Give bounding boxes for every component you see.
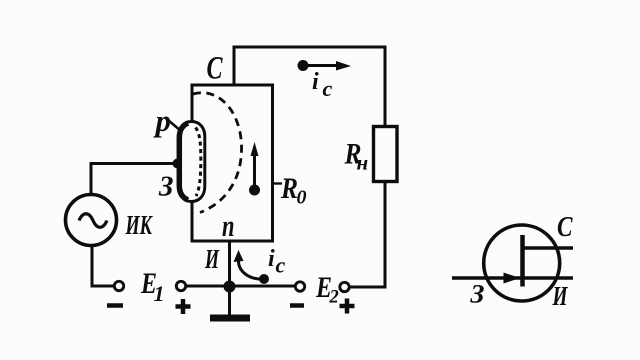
depletion boundary dashed curve: [193, 93, 242, 213]
E1 terminal plus circle: [176, 281, 185, 290]
wire AC source to gate: [91, 164, 174, 196]
svg-text:З: З: [158, 171, 174, 203]
svg-text:1: 1: [154, 281, 165, 306]
E2 terminal minus circle: [295, 282, 304, 291]
svg-text:i: i: [312, 69, 319, 95]
ic curved arrow bottom: [234, 250, 270, 284]
wire source lead down: [228, 241, 231, 286]
E2 minus sign: [290, 303, 304, 308]
jfet channel bar: [520, 235, 525, 287]
jfet drain lead: [523, 246, 574, 249]
svg-text:n: n: [222, 208, 235, 243]
jfet gate-source line: [452, 276, 573, 279]
svg-text:c: c: [276, 253, 286, 278]
svg-text:R: R: [280, 172, 298, 205]
svg-text:И: И: [204, 244, 219, 274]
transistor structure box: [192, 85, 273, 241]
p pointer line: [168, 120, 181, 131]
svg-text:C: C: [207, 51, 224, 87]
svg-text:i: i: [268, 246, 275, 272]
wire junction to E2: [229, 285, 295, 288]
p-region capsule: [179, 122, 205, 202]
svg-text:З: З: [469, 280, 484, 309]
wire right vertical lower: [349, 182, 385, 288]
E2 terminal plus circle: [340, 282, 349, 291]
E1 minus sign: [107, 303, 123, 308]
svg-text:0: 0: [297, 187, 307, 209]
node junction dot: [224, 281, 236, 293]
E2 plus sign: [340, 299, 355, 314]
E1 terminal minus circle: [114, 281, 123, 290]
svg-text:И: И: [552, 281, 568, 311]
wire bottom left run: [186, 285, 224, 288]
svg-text:н: н: [357, 151, 369, 175]
svg-text:ИК: ИК: [125, 210, 153, 240]
wire drain lead C: [233, 47, 236, 85]
R0 tick: [273, 182, 283, 184]
E1 plus sign: [176, 299, 191, 314]
resistor RH body: [374, 127, 398, 182]
wire E1 to AC source: [92, 246, 115, 286]
svg-text:C: C: [557, 211, 573, 243]
svg-text:c: c: [323, 76, 333, 101]
p-n junction dotted line: [196, 128, 201, 197]
wire top horizontal: [234, 46, 385, 49]
ic arrow top: [298, 60, 352, 71]
ac source IK: [66, 195, 117, 246]
ground: [210, 286, 250, 318]
p-region thick left arc: [179, 123, 188, 200]
R0 channel arrow: [249, 142, 260, 196]
gate terminal dot: [173, 159, 183, 169]
jfet gate arrowhead: [504, 273, 521, 284]
jfet symbol circle: [484, 225, 560, 301]
wire right vertical upper: [384, 47, 387, 127]
svg-text:2: 2: [329, 288, 339, 308]
